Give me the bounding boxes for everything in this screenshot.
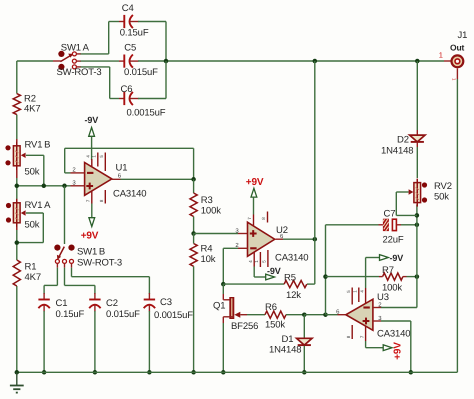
svg-text:+9V: +9V — [246, 177, 264, 188]
wire U3 pin3 to ground — [373, 321, 411, 372]
label R3 — [201, 195, 213, 206]
wire RV1A wiper loop — [17, 213, 44, 243]
svg-text:0.15uF: 0.15uF — [120, 27, 149, 38]
label D2 — [397, 135, 409, 146]
svg-text:C3: C3 — [160, 297, 172, 308]
svg-text:0.015uF: 0.015uF — [106, 309, 140, 320]
svg-text:BF256: BF256 — [231, 321, 258, 332]
pin label U1-6 — [118, 172, 122, 179]
label C4 — [122, 3, 134, 14]
wire D1 top lead — [303, 315, 305, 338]
svg-text:1N4148: 1N4148 — [381, 146, 413, 157]
label R6 value — [265, 320, 285, 331]
svg-text:50k: 50k — [25, 167, 40, 178]
label U3 CA3140 — [377, 328, 410, 339]
svg-text:C6: C6 — [121, 84, 133, 95]
label J1 — [458, 30, 468, 41]
svg-text:0.0015uF: 0.0015uF — [127, 108, 166, 119]
wire C7 right — [401, 224, 417, 226]
wire R5 row left — [223, 283, 284, 285]
wire left border vertical (R2/RV1B/RV1A/R1 column) — [16, 61, 18, 372]
resistor R3 — [190, 193, 197, 217]
capacitor C4 — [119, 15, 139, 28]
supply +9V (U2) — [246, 177, 264, 197]
label C2 — [106, 298, 118, 309]
label R1 value — [25, 272, 41, 283]
wire C7 row left — [326, 224, 379, 226]
wire Q1 source to ground bus — [222, 323, 224, 372]
label R4 value — [201, 254, 216, 265]
wire bottom ground bus — [17, 371, 458, 373]
junction pin3-sw1b — [62, 184, 67, 189]
pin label U1-5 — [99, 155, 104, 158]
label R4 — [201, 244, 213, 255]
wire U1 output — [112, 178, 194, 180]
wire pin3 row to SW1B pole — [64, 186, 66, 244]
svg-text:22uF: 22uF — [383, 235, 404, 246]
label RV1A — [25, 200, 52, 211]
svg-text:-9V: -9V — [85, 115, 99, 125]
pin label U2-1 — [254, 260, 259, 263]
label R1 — [25, 262, 37, 273]
resistor R4 — [190, 244, 197, 267]
label C3 — [160, 297, 172, 308]
label C6 value — [127, 108, 166, 119]
supply +9V (U3) — [366, 341, 404, 360]
wire D2 to RV2 — [416, 143, 418, 178]
wire C6 right to bus — [138, 61, 166, 99]
wire R7 row left — [326, 276, 383, 278]
label U1 — [116, 163, 128, 174]
pin label J1-1 — [439, 50, 443, 59]
wire SW1B throw2 to C2 — [65, 268, 95, 294]
potentiometer RV1A — [6, 199, 26, 227]
junction wiper-row — [415, 213, 420, 218]
svg-text:R7: R7 — [382, 265, 394, 276]
svg-text:4K7: 4K7 — [24, 104, 40, 115]
wire C3 to ground bus — [148, 311, 150, 372]
pin label U2-3 — [235, 227, 239, 234]
pin label U3-6 — [336, 308, 340, 315]
pin label U1-8 — [99, 199, 104, 202]
resistor R1 — [13, 260, 20, 286]
junction bus-U2out — [313, 59, 318, 64]
pin label U2-6 — [280, 233, 284, 240]
label C6 — [121, 84, 133, 95]
wire U2 out vertical to bus — [314, 61, 316, 239]
wire to U3 pin6 — [326, 314, 346, 316]
label C1 — [56, 298, 68, 309]
junction C1-gnd — [42, 370, 47, 375]
potentiometer RV2 — [409, 179, 428, 207]
label U2 CA3140 — [275, 253, 308, 264]
junction C7-right — [415, 223, 420, 228]
diode D2 — [410, 135, 425, 142]
wire D1 junction to U3out junction — [304, 314, 325, 316]
svg-text:U1: U1 — [116, 163, 128, 174]
label Q1 BF256 — [231, 321, 258, 332]
svg-text:SW1 A: SW1 A — [61, 42, 90, 53]
label D2 value — [381, 146, 413, 157]
junction X-R7 — [323, 274, 328, 279]
label R7 value — [382, 283, 402, 294]
wire C1 to ground bus — [43, 311, 45, 372]
diode D1 — [297, 338, 312, 345]
capacitor C1 — [38, 293, 49, 312]
potentiometer RV1B — [5, 142, 25, 170]
junction R6-D1 — [302, 312, 307, 317]
supply -9V (U2) — [254, 266, 281, 280]
wire R6 to D1 junction — [286, 314, 304, 316]
capacitor C6 — [119, 92, 139, 105]
svg-text:CA3140: CA3140 — [377, 328, 410, 339]
wire C4 right to bus — [138, 22, 166, 62]
supply -9V (U1) — [85, 115, 99, 160]
wire RV2 wiper loop — [396, 192, 417, 215]
junction U1 out — [191, 177, 196, 182]
label R3 value — [201, 205, 221, 216]
svg-text:SW1 B: SW1 B — [77, 247, 105, 258]
label R5 value — [286, 290, 301, 301]
label C1 value — [56, 309, 85, 320]
op-amp U3 — [346, 288, 373, 342]
pin label U1-4 — [85, 155, 90, 158]
pin label U3-7 — [359, 335, 364, 338]
pin label U3-5 — [346, 290, 351, 293]
svg-text:RV1 A: RV1 A — [25, 200, 52, 211]
svg-text:+9V: +9V — [392, 342, 403, 360]
label D1 — [282, 334, 294, 345]
wire bus to D2 — [416, 61, 418, 135]
svg-text:0.15uF: 0.15uF — [56, 309, 85, 320]
junction Q1 drain R5 — [221, 282, 226, 287]
capacitor C2 — [89, 293, 100, 312]
label R2 value — [24, 104, 40, 115]
svg-text:SW-ROT-3: SW-ROT-3 — [57, 67, 102, 78]
wire junction to R4 — [193, 234, 195, 244]
supply -9V (U3) — [366, 253, 404, 288]
label RV1A value — [25, 220, 40, 231]
svg-text:100k: 100k — [201, 205, 221, 216]
svg-text:4K7: 4K7 — [25, 272, 41, 283]
label U1 CA3140 — [113, 189, 146, 200]
junction R7-right — [415, 274, 420, 279]
svg-text:150k: 150k — [265, 320, 285, 331]
pin label U1-2 — [72, 167, 76, 174]
wire junction to U2 pin3 — [194, 233, 248, 235]
label SW1B — [77, 247, 105, 258]
wire node X vertical — [325, 225, 327, 315]
label SW1A — [61, 42, 90, 53]
wire U2 out down to R5 — [307, 239, 315, 284]
svg-text:D2: D2 — [397, 135, 409, 146]
pin label U3-4 — [359, 290, 364, 293]
wire SW1A throw2 to C5 — [81, 60, 120, 62]
svg-text:CA3140: CA3140 — [113, 189, 146, 200]
junction R4-gnd — [191, 370, 196, 375]
svg-text:-9V: -9V — [390, 253, 404, 263]
label R2 — [24, 94, 36, 105]
junction pin3-wiper — [42, 184, 47, 189]
junction R3-R4-U2pin3 — [191, 231, 196, 236]
pin label U2-8 — [261, 217, 266, 220]
label R5 — [284, 273, 296, 284]
pin label U3-3 — [378, 315, 382, 322]
label C3 value — [154, 310, 193, 321]
op-amp U2 — [248, 197, 275, 267]
wire main top-left corner to SW1A pole — [17, 60, 61, 62]
svg-text:0.015uF: 0.015uF — [124, 67, 158, 78]
label RV1B — [25, 140, 51, 151]
label C7 — [384, 209, 396, 220]
wire U1 pin2 feedback loop — [65, 148, 194, 179]
supply +9V (U1) — [81, 204, 99, 242]
wire R7 right — [403, 276, 417, 278]
svg-text:12k: 12k — [286, 290, 301, 301]
svg-text:1: 1 — [439, 50, 443, 59]
label Q1 — [213, 301, 225, 312]
junction gnd-left — [15, 370, 20, 375]
junction bus-C4C6 — [164, 59, 169, 64]
capacitor C7 (polarized 22uF) — [379, 219, 402, 231]
wire R4 to ground bus — [193, 266, 195, 372]
svg-text:R5: R5 — [284, 273, 296, 284]
junction bus-D2 — [415, 59, 420, 64]
pin label U1-1 — [91, 155, 96, 158]
svg-text:J1: J1 — [458, 30, 468, 41]
junction U3out-row — [323, 312, 328, 317]
capacitor C5 — [119, 55, 139, 68]
label U3 — [377, 292, 389, 303]
label C7 value — [383, 235, 404, 246]
svg-text:10k: 10k — [201, 254, 216, 265]
svg-text:R6: R6 — [265, 302, 277, 313]
svg-text:R4: R4 — [201, 244, 213, 255]
transistor Q1 (BF256 JFET) — [223, 284, 247, 323]
pin label U3-8 — [346, 335, 351, 338]
svg-text:Out: Out — [450, 42, 465, 52]
label RV2 value — [434, 192, 449, 203]
pin label U2-2 — [235, 242, 239, 249]
wire R3 to junction — [193, 217, 195, 234]
pin label U2-4 — [248, 260, 253, 263]
svg-text:0.0015uF: 0.0015uF — [154, 310, 193, 321]
label R6 — [265, 302, 277, 313]
junction D1-gnd — [302, 370, 307, 375]
wire RV1B wiper to pin3 row — [26, 155, 44, 186]
capacitor C3 — [144, 293, 155, 312]
wire U1 out to R3 — [193, 179, 195, 193]
resistor R6 — [265, 311, 286, 318]
pin label U1-3 — [72, 180, 76, 187]
label SW-ROT-3 (SW1A) — [57, 67, 102, 78]
label C4 value — [120, 27, 149, 38]
pin label J1-shield — [452, 78, 457, 81]
wire Q1 gate to R6 — [247, 314, 265, 316]
switch SW1A (SW-ROT-3) — [58, 51, 81, 70]
svg-text:-9V: -9V — [267, 266, 281, 276]
wire main bus C5 to J1 — [138, 60, 451, 62]
label R7 — [382, 265, 394, 276]
junction U2 out — [313, 237, 318, 242]
svg-text:CA3140: CA3140 — [275, 253, 308, 264]
junction pin3-left — [15, 184, 20, 189]
svg-text:RV2: RV2 — [434, 181, 452, 192]
svg-text:SW-ROT-3: SW-ROT-3 — [77, 258, 122, 269]
resistor R7 — [383, 273, 403, 280]
wire SW1A throw1 to C4 — [81, 22, 120, 54]
pin label U3-1 — [353, 290, 358, 293]
pin label U2-5 — [262, 260, 267, 263]
svg-text:50k: 50k — [25, 220, 40, 231]
label U2 — [276, 225, 288, 236]
wire J1 down right border — [456, 68, 458, 372]
junction C2-gnd — [93, 370, 98, 375]
wire U3 pin2 elbow — [373, 205, 417, 308]
label RV2 — [434, 181, 452, 192]
wire C2 to ground bus — [94, 311, 96, 372]
label RV1B value — [25, 167, 40, 178]
wire SW1B throw1 to C1 — [44, 268, 57, 294]
wire SW1A throw3 to C6 — [81, 67, 120, 99]
connector J1 — [452, 55, 464, 67]
svg-text:C5: C5 — [124, 43, 136, 54]
pin label U1-7 — [85, 199, 90, 202]
resistor R2 — [13, 94, 20, 115]
switch SW1B (SW-ROT-3) — [54, 245, 74, 268]
wire pin3 row — [17, 185, 85, 187]
wire SW1B throw3 to C3 — [72, 268, 150, 294]
svg-text:C2: C2 — [106, 298, 118, 309]
svg-text:C4: C4 — [122, 3, 134, 14]
junction C3-gnd — [147, 370, 152, 375]
label C5 — [124, 43, 136, 54]
svg-text:+9V: +9V — [81, 230, 99, 241]
label SW-ROT-3 (SW1B) — [77, 258, 122, 269]
label C2 value — [106, 309, 140, 320]
svg-text:RV1 B: RV1 B — [25, 140, 51, 151]
wire U2 output — [276, 238, 315, 240]
svg-text:C7: C7 — [384, 209, 396, 220]
label J1 Out — [450, 42, 465, 52]
label C5 value — [124, 67, 158, 78]
svg-text:D1: D1 — [282, 334, 294, 345]
svg-text:1N4148: 1N4148 — [269, 345, 301, 356]
svg-text:R1: R1 — [25, 262, 37, 273]
label D1 value — [269, 345, 301, 356]
junction Q1-gnd — [221, 370, 226, 375]
ground — [10, 372, 24, 392]
pin label U2-7 — [247, 217, 252, 220]
wire U2 pin2 to Q1 drain — [223, 248, 247, 284]
wire D1 to ground bus — [303, 346, 305, 373]
pin label U3-2 — [378, 301, 382, 308]
op-amp U1 — [85, 153, 112, 204]
svg-text:Q1: Q1 — [213, 301, 225, 312]
svg-text:C1: C1 — [56, 298, 68, 309]
resistor R5 — [284, 281, 307, 288]
junction RV1A return — [15, 240, 20, 245]
wire bus to J1 — [451, 60, 453, 62]
junction U3pin3-gnd — [409, 370, 414, 375]
svg-text:50k: 50k — [434, 192, 449, 203]
